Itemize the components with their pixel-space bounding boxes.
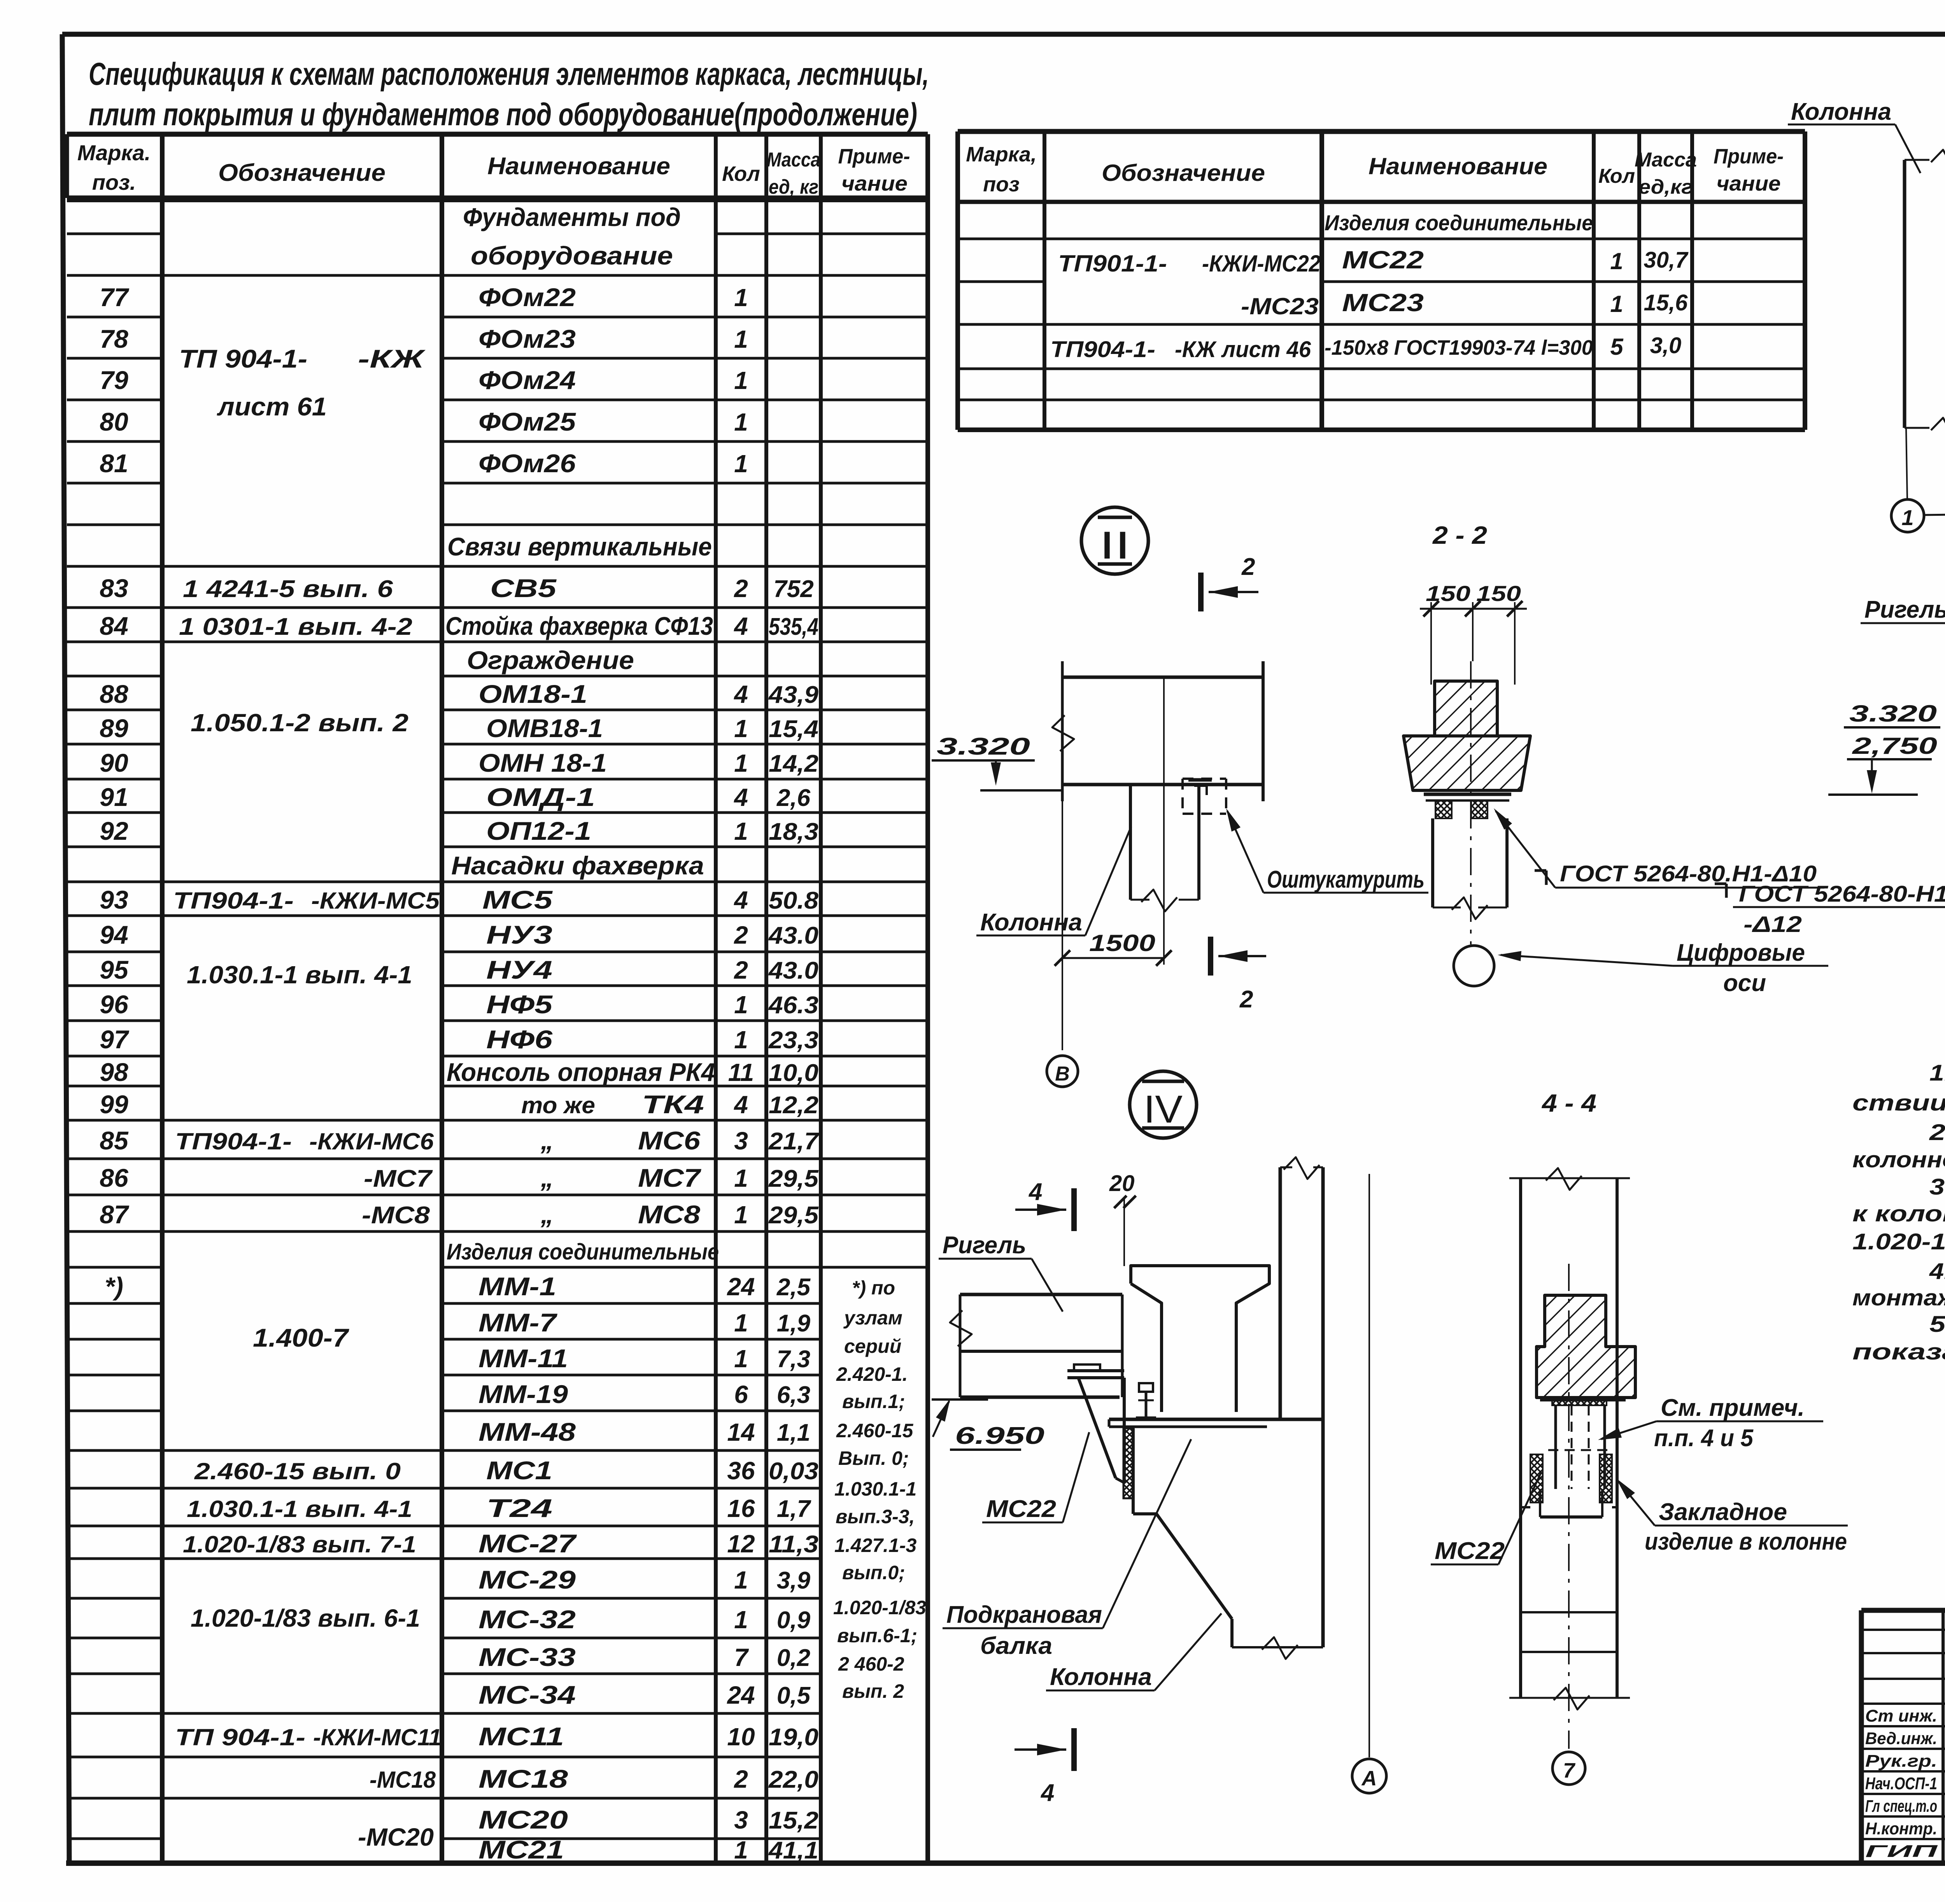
- svg-text:Ригель: Ригель: [943, 1232, 1026, 1259]
- svg-text:3,0: 3,0: [1650, 333, 1682, 358]
- svg-text:вып.3-3,: вып.3-3,: [836, 1506, 915, 1527]
- svg-text:1.020-1/83 вып. 6-1: 1.020-1/83 вып. 6-1: [191, 1604, 420, 1632]
- svg-text:оборудование: оборудование: [471, 241, 673, 270]
- node IV weld strip hatched: [1123, 1428, 1134, 1498]
- svg-text:ТП 904-1-: ТП 904-1-: [175, 1724, 305, 1750]
- svg-text:Фундаменты под: Фундаменты под: [463, 203, 681, 231]
- svg-text:НУ4: НУ4: [486, 955, 552, 984]
- section 4-4 anchor bolts: [1554, 1405, 1557, 1489]
- svg-text:НУ3: НУ3: [486, 920, 552, 949]
- svg-text:88: 88: [100, 680, 128, 708]
- node IV section mark 4 bottom: [1071, 1728, 1077, 1771]
- svg-text:92: 92: [100, 816, 128, 845]
- second spec table frame: [958, 129, 1805, 134]
- node I axis arrow to circle 2: [1925, 514, 1945, 515]
- svg-text:ТП904-1-: ТП904-1-: [175, 1128, 292, 1154]
- node II column axis thin line: [1163, 677, 1165, 965]
- svg-text:6: 6: [734, 1380, 748, 1408]
- svg-text:43.0: 43.0: [768, 922, 818, 949]
- node IV corbel outline: [1132, 1428, 1135, 1514]
- svg-text:3.320: 3.320: [1849, 701, 1937, 727]
- svg-text:Марка,: Марка,: [966, 143, 1037, 166]
- svg-text:11,3: 11,3: [769, 1531, 818, 1558]
- svg-text:1: 1: [734, 1836, 748, 1864]
- svg-text:1,7: 1,7: [777, 1496, 811, 1522]
- svg-text:0,2: 0,2: [777, 1645, 810, 1671]
- svg-text:оси: оси: [1723, 970, 1766, 997]
- node IV crane beam profile: [1131, 1266, 1269, 1412]
- node IV axis line: [1369, 1174, 1370, 1757]
- svg-text:-КЖИ-МС22: -КЖИ-МС22: [1202, 250, 1321, 277]
- svg-text:6,3: 6,3: [777, 1382, 810, 1408]
- node III label GOST 5264-80-N1-D12: [1715, 883, 1726, 885]
- svg-text:1: 1: [734, 1201, 748, 1229]
- svg-text:Стойка фахверка СФ13: Стойка фахверка СФ13: [445, 611, 713, 640]
- svg-text:-МС8: -МС8: [362, 1202, 430, 1229]
- svg-text:МС-29: МС-29: [478, 1565, 576, 1594]
- svg-text:12: 12: [727, 1530, 755, 1558]
- svg-text:ММ-1: ММ-1: [478, 1272, 556, 1301]
- svg-text:24: 24: [727, 1681, 755, 1709]
- section 4-4 crosshatched pads: [1530, 1454, 1543, 1503]
- svg-text:Н.контр.: Н.контр.: [1865, 1819, 1937, 1838]
- section 4-4 column strip: [1519, 1178, 1522, 1698]
- svg-text:1 4241-5 вып. 6: 1 4241-5 вып. 6: [183, 576, 393, 603]
- svg-text:ФОм24: ФОм24: [478, 366, 576, 394]
- svg-text:ТП901-1-: ТП901-1-: [1058, 250, 1167, 277]
- svg-text:90: 90: [100, 748, 128, 777]
- svg-text:4 - 4: 4 - 4: [1541, 1089, 1596, 1117]
- svg-text:Приме-: Приме-: [1714, 145, 1784, 168]
- node II beam outline: [1061, 661, 1064, 801]
- svg-text:1.427.1-3: 1.427.1-3: [834, 1534, 916, 1556]
- node II section mark 2 top: [1198, 573, 1204, 611]
- svg-text:ед, кг: ед, кг: [769, 176, 818, 198]
- svg-text:Закладное: Закладное: [1659, 1499, 1787, 1526]
- svg-text:4: 4: [1028, 1179, 1042, 1205]
- section 4-4 hatched embed body: [1537, 1295, 1635, 1398]
- svg-text:14,2: 14,2: [769, 750, 818, 777]
- svg-text:2,5: 2,5: [776, 1274, 811, 1301]
- svg-text:1: 1: [734, 1606, 748, 1634]
- svg-text:чание: чание: [841, 172, 908, 195]
- svg-text:1: 1: [734, 1309, 748, 1337]
- svg-text:80: 80: [100, 407, 128, 436]
- svg-text:МС-33: МС-33: [478, 1643, 576, 1671]
- svg-text:89: 89: [100, 714, 128, 743]
- svg-text:МС5: МС5: [482, 885, 553, 914]
- svg-text:ТП 904-1-: ТП 904-1-: [179, 344, 307, 373]
- svg-text:78: 78: [100, 324, 128, 353]
- svg-text:Гл спец.т.о: Гл спец.т.о: [1865, 1797, 1937, 1816]
- svg-text:10: 10: [727, 1723, 755, 1751]
- svg-text:-Δ12: -Δ12: [1743, 912, 1802, 937]
- svg-text:II: II: [1099, 524, 1130, 567]
- svg-text:2: 2: [734, 956, 748, 984]
- svg-text:МС22: МС22: [1342, 246, 1424, 274]
- node II axis circle В: [1047, 1056, 1078, 1087]
- svg-text:4: 4: [733, 680, 748, 708]
- svg-text:-МС23: -МС23: [1241, 293, 1319, 319]
- svg-text:ОМ18-1: ОМ18-1: [478, 680, 587, 708]
- svg-text:ФОм26: ФОм26: [478, 449, 576, 478]
- svg-text:150: 150: [1426, 581, 1470, 606]
- svg-text:вып.1;: вып.1;: [842, 1391, 905, 1412]
- svg-text:0,5: 0,5: [777, 1682, 811, 1709]
- svg-text:МС6: МС6: [638, 1126, 701, 1155]
- svg-text:4. Соединительное изделие МС: 4. Соединительное изделие МС22 установит…: [1929, 1259, 1945, 1284]
- svg-text:п.п. 4 и 5: п.п. 4 и 5: [1654, 1425, 1754, 1452]
- svg-text:2.420-1.: 2.420-1.: [836, 1363, 908, 1385]
- svg-text:НФ6: НФ6: [486, 1025, 553, 1054]
- svg-text:43,9: 43,9: [768, 681, 819, 708]
- svg-text:77: 77: [100, 283, 130, 312]
- svg-text:МС20: МС20: [478, 1805, 568, 1834]
- svg-text:2.460-15 вып. 0: 2.460-15 вып. 0: [194, 1458, 401, 1484]
- svg-text:1: 1: [734, 749, 748, 777]
- svg-text:1: 1: [734, 284, 748, 312]
- svg-text:ГОСТ 5264-80-Н1-: ГОСТ 5264-80-Н1-: [1739, 881, 1945, 907]
- node IV beam outline: [960, 1293, 1122, 1296]
- section 4-4 center axis: [1568, 1264, 1570, 1749]
- svg-text:3: 3: [734, 1806, 748, 1834]
- svg-text:-МС20: -МС20: [358, 1823, 434, 1851]
- left table row lines: [67, 233, 162, 235]
- svg-text:-КЖ лист 46: -КЖ лист 46: [1175, 337, 1311, 362]
- svg-text:1,9: 1,9: [777, 1310, 811, 1337]
- svg-text:18,3: 18,3: [769, 818, 818, 845]
- svg-text:ОМД-1: ОМД-1: [486, 783, 595, 811]
- node I column break marks: [1931, 150, 1945, 172]
- svg-text:-150x8 ГОСТ19903-74 l=300: -150x8 ГОСТ19903-74 l=300: [1325, 336, 1593, 359]
- svg-text:1: 1: [1901, 505, 1913, 530]
- svg-text:ОП12-1: ОП12-1: [486, 816, 591, 845]
- svg-text:то же: то же: [521, 1092, 595, 1118]
- svg-text:81: 81: [100, 449, 128, 478]
- svg-text:23,3: 23,3: [768, 1027, 818, 1054]
- svg-text:4: 4: [1040, 1780, 1054, 1806]
- svg-text:96: 96: [100, 990, 129, 1019]
- svg-text:12,2: 12,2: [769, 1092, 818, 1119]
- node II column below beam: [1129, 785, 1132, 900]
- svg-text:Приме-: Приме-: [838, 145, 910, 168]
- page border frame: [62, 32, 1945, 37]
- svg-text:Марка.: Марка.: [77, 140, 151, 165]
- svg-text:15,2: 15,2: [769, 1807, 818, 1834]
- svg-text:50.8: 50.8: [769, 887, 819, 914]
- svg-text:показаны.: показаны.: [1852, 1339, 1945, 1365]
- section 2-2 hatched column head: [1435, 681, 1497, 736]
- svg-text:IV: IV: [1144, 1088, 1183, 1131]
- svg-text:5. Подкрановая балка и рас: 5. Подкрановая балка и распорка условно …: [1929, 1312, 1945, 1337]
- svg-text:1: 1: [734, 1566, 748, 1594]
- svg-text:22,0: 22,0: [768, 1766, 818, 1793]
- svg-text:5: 5: [1610, 334, 1624, 360]
- svg-text:85: 85: [100, 1126, 129, 1155]
- svg-text:535,4: 535,4: [769, 613, 818, 640]
- svg-text:Вып. 0;: Вып. 0;: [838, 1447, 909, 1469]
- svg-text:серий: серий: [844, 1335, 901, 1357]
- svg-text:„: „: [540, 1126, 554, 1155]
- svg-text:1.030.1-1: 1.030.1-1: [834, 1478, 916, 1500]
- svg-text:*) по: *) по: [852, 1277, 895, 1299]
- svg-text:7: 7: [1563, 1759, 1576, 1782]
- svg-text:поз.: поз.: [92, 170, 136, 194]
- svg-text:МС21: МС21: [478, 1835, 564, 1864]
- svg-text:МС-32: МС-32: [478, 1605, 576, 1634]
- svg-text:НФ5: НФ5: [486, 990, 553, 1019]
- svg-text:1: 1: [734, 1345, 748, 1373]
- svg-text:4: 4: [733, 1091, 748, 1119]
- svg-text:узлам: узлам: [843, 1307, 902, 1329]
- node I axis line to circles: [1906, 428, 1907, 500]
- svg-text:ОМН 18-1: ОМН 18-1: [478, 748, 607, 777]
- svg-text:Изделия соединительные: Изделия соединительные: [447, 1239, 719, 1265]
- svg-text:79: 79: [100, 366, 128, 394]
- svg-text:А: А: [1361, 1767, 1377, 1790]
- svg-text:вып. 2: вып. 2: [842, 1680, 904, 1702]
- svg-text:монтаже подкрановой балки и: монтаже подкрановой балки и распорки.: [1852, 1285, 1945, 1310]
- svg-text:4: 4: [733, 886, 748, 914]
- svg-text:2,6: 2,6: [776, 785, 811, 811]
- svg-text:МС11: МС11: [478, 1722, 564, 1751]
- svg-text:19,0: 19,0: [769, 1724, 818, 1751]
- svg-text:3. Соединительные изделия МС: 3. Соединительные изделия МС-27 и МС23 п…: [1929, 1174, 1945, 1200]
- svg-text:МС8: МС8: [638, 1200, 700, 1229]
- svg-text:84: 84: [100, 611, 128, 640]
- svg-text:1: 1: [734, 408, 748, 436]
- svg-text:16: 16: [727, 1494, 755, 1522]
- svg-text:1: 1: [1610, 291, 1623, 317]
- svg-text:1: 1: [734, 325, 748, 353]
- svg-text:МС23: МС23: [1342, 289, 1424, 317]
- svg-text:1: 1: [734, 715, 748, 743]
- svg-text:15,4: 15,4: [769, 716, 818, 743]
- svg-text:1: 1: [734, 450, 748, 478]
- svg-text:Ст инж.: Ст инж.: [1865, 1706, 1937, 1725]
- svg-text:Колонна: Колонна: [1791, 98, 1891, 125]
- svg-text:-КЖИ-МС11: -КЖИ-МС11: [313, 1724, 442, 1750]
- svg-text:Т24: Т24: [486, 1494, 552, 1522]
- svg-text:плит покрытия и фундаментов: плит покрытия и фундаментов под оборудов…: [89, 97, 917, 132]
- svg-text:к колоннам в соответствии с: к колоннам в соответствии с узлом 27-3 п…: [1852, 1201, 1945, 1226]
- svg-text:3: 3: [734, 1127, 748, 1155]
- svg-text:10,0: 10,0: [769, 1060, 818, 1086]
- svg-text:Связи вертикальные: Связи вертикальные: [447, 532, 712, 561]
- section 2-2 center axis: [1470, 661, 1472, 944]
- svg-text:2: 2: [734, 575, 748, 603]
- section 4-4 column joint lines: [1521, 1506, 1530, 1508]
- svg-text:-КЖИ-МС5: -КЖИ-МС5: [311, 888, 440, 914]
- svg-text:Обозначение: Обозначение: [218, 159, 385, 186]
- left spec table frame: [67, 196, 928, 201]
- svg-text:поз: поз: [983, 173, 1020, 196]
- svg-text:150: 150: [1476, 581, 1521, 606]
- svg-text:1.020-1/83: 1.020-1/83: [833, 1597, 926, 1618]
- svg-text:98: 98: [100, 1058, 128, 1086]
- svg-text:МС18: МС18: [478, 1764, 568, 1793]
- svg-text:1: 1: [1610, 248, 1623, 274]
- svg-text:-КЖИ-МС6: -КЖИ-МС6: [309, 1128, 434, 1154]
- svg-text:Оштукатурить: Оштукатурить: [1267, 866, 1425, 893]
- svg-text:4: 4: [733, 612, 748, 640]
- node IV anchor bolt: [1139, 1383, 1153, 1392]
- svg-text:2: 2: [1239, 986, 1253, 1013]
- node IV column outline: [1321, 1167, 1325, 1647]
- svg-text:1.030.1-1 вып. 4-1: 1.030.1-1 вып. 4-1: [187, 961, 412, 989]
- svg-text:-МС18: -МС18: [370, 1767, 436, 1793]
- svg-text:Ригель: Ригель: [1864, 596, 1945, 623]
- svg-text:лист 61: лист 61: [217, 392, 327, 421]
- node IV support plate under crane beam: [1109, 1418, 1323, 1421]
- svg-text:-МС7: -МС7: [364, 1165, 433, 1192]
- svg-text:Наименование: Наименование: [487, 153, 670, 180]
- svg-text:41,1: 41,1: [768, 1837, 818, 1864]
- svg-text:1: 1: [734, 366, 748, 394]
- svg-text:ММ-48: ММ-48: [478, 1417, 576, 1446]
- stamp signature area rows: [1861, 1629, 1945, 1631]
- svg-text:1,1: 1,1: [777, 1419, 810, 1446]
- svg-text:чание: чание: [1717, 172, 1781, 195]
- svg-text:ММ-11: ММ-11: [478, 1344, 568, 1373]
- svg-text:6.950: 6.950: [955, 1422, 1044, 1449]
- svg-text:Изделия соединительные: Изделия соединительные: [1325, 210, 1593, 235]
- svg-text:ТК4: ТК4: [642, 1090, 704, 1119]
- svg-text:87: 87: [100, 1200, 130, 1229]
- node IV MC22 bracket: [1074, 1365, 1100, 1371]
- svg-text:ОМВ18-1: ОМВ18-1: [486, 714, 603, 743]
- svg-text:вып.6-1;: вып.6-1;: [837, 1625, 917, 1647]
- svg-text:1 0301-1 вып. 4-2: 1 0301-1 вып. 4-2: [179, 613, 412, 640]
- svg-text:ТП904-1-: ТП904-1-: [1050, 337, 1155, 362]
- svg-text:ММ-19: ММ-19: [478, 1380, 568, 1408]
- node I column outline: [1903, 160, 1906, 428]
- svg-text:Нач.ОСП-1: Нач.ОСП-1: [1865, 1774, 1937, 1793]
- svg-text:2.460-15: 2.460-15: [836, 1420, 914, 1442]
- stamp outer frame: [1859, 1610, 1864, 1863]
- section 2-2 column below: [1431, 818, 1434, 907]
- svg-text:Рук.гр.: Рук.гр.: [1865, 1752, 1937, 1771]
- svg-text:7,3: 7,3: [777, 1346, 810, 1373]
- svg-text:93: 93: [100, 885, 128, 914]
- svg-text:94: 94: [100, 920, 128, 949]
- svg-text:колонной выполнять цементным: колонной выполнять цементным раствором м…: [1852, 1147, 1945, 1172]
- svg-text:ТП904-1-: ТП904-1-: [173, 888, 294, 914]
- svg-text:балка: балка: [980, 1633, 1052, 1659]
- svg-text:„: „: [540, 1163, 554, 1192]
- svg-text:2,750: 2,750: [1852, 733, 1937, 759]
- svg-text:1. Сварочные работы следует: 1. Сварочные работы следует выполнять в …: [1929, 1060, 1945, 1086]
- svg-text:Кол: Кол: [1598, 165, 1635, 187]
- svg-text:В: В: [1055, 1063, 1070, 1085]
- svg-text:2: 2: [1241, 554, 1255, 580]
- svg-text:1: 1: [734, 1026, 748, 1054]
- svg-text:1.020-1/83 вып. 7-1: 1.020-1/83 вып. 7-1: [183, 1531, 416, 1557]
- svg-text:СВ5: СВ5: [490, 574, 557, 603]
- svg-text:Наименование: Наименование: [1369, 153, 1547, 179]
- svg-text:Консоль опорная РК4: Консоль опорная РК4: [447, 1058, 715, 1086]
- svg-text:ФОм25: ФОм25: [478, 407, 576, 436]
- svg-text:„: „: [540, 1200, 554, 1229]
- svg-text:1.030.1-1 вып. 4-1: 1.030.1-1 вып. 4-1: [187, 1496, 412, 1522]
- svg-text:МС-27: МС-27: [478, 1529, 577, 1558]
- svg-text:изделие в колонне: изделие в колонне: [1645, 1528, 1847, 1555]
- svg-text:2 Замоноличивание зазора: 2 Замоноличивание зазора между торцом ри…: [1929, 1120, 1945, 1145]
- svg-text:МС1: МС1: [486, 1456, 552, 1485]
- svg-text:1.400-7: 1.400-7: [253, 1323, 350, 1352]
- node II connection dashed bracket: [1183, 778, 1226, 780]
- svg-text:Вед.инж.: Вед.инж.: [1865, 1729, 1937, 1748]
- svg-text:ФОм23: ФОм23: [478, 324, 576, 353]
- svg-text:43.0: 43.0: [768, 957, 818, 984]
- section 4-4 axis circle 7: [1552, 1752, 1585, 1785]
- svg-text:0,9: 0,9: [777, 1607, 811, 1634]
- svg-text:Масса: Масса: [767, 149, 820, 171]
- svg-text:*): *): [105, 1272, 123, 1301]
- svg-text:-КЖ: -КЖ: [358, 344, 426, 373]
- node IV section mark 4 top: [1071, 1188, 1077, 1231]
- section 2-2 bearing plate: [1424, 793, 1511, 796]
- section 2-2 label GOST 5264-80.N1-D10: [1535, 869, 1546, 872]
- node I axis circle 1: [1891, 499, 1924, 532]
- svg-text:Колонна: Колонна: [1050, 1664, 1152, 1690]
- svg-text:Ограждение: Ограждение: [467, 646, 634, 674]
- node II section mark 2 bottom: [1208, 937, 1213, 976]
- svg-text:ед,кг: ед,кг: [1638, 176, 1693, 198]
- svg-text:МС22: МС22: [1435, 1538, 1505, 1564]
- section 4-4 bolts bottom plate: [1540, 1515, 1602, 1519]
- svg-text:14: 14: [727, 1418, 755, 1446]
- svg-text:752: 752: [773, 576, 813, 603]
- svg-text:86: 86: [100, 1163, 129, 1192]
- svg-text:1500: 1500: [1089, 930, 1155, 956]
- svg-text:11: 11: [728, 1058, 754, 1086]
- section 2-2 axis circle: [1454, 946, 1494, 986]
- svg-text:29,5: 29,5: [768, 1202, 819, 1229]
- svg-text:95: 95: [100, 955, 129, 984]
- svg-text:1: 1: [734, 991, 748, 1019]
- svg-text:29,5: 29,5: [768, 1165, 819, 1192]
- svg-text:21,7: 21,7: [768, 1128, 820, 1155]
- svg-text:2 - 2: 2 - 2: [1432, 521, 1487, 549]
- svg-text:99: 99: [100, 1090, 128, 1119]
- svg-text:Спецификация к схемам располож: Спецификация к схемам расположения элеме…: [89, 56, 929, 92]
- svg-text:3,9: 3,9: [777, 1567, 811, 1594]
- svg-text:Подкрановая: Подкрановая: [946, 1601, 1102, 1628]
- node II mark circle: [1081, 507, 1148, 574]
- svg-text:Кол: Кол: [722, 162, 760, 186]
- svg-text:2: 2: [734, 921, 748, 949]
- svg-text:Масса: Масса: [1635, 149, 1697, 171]
- svg-text:1: 1: [734, 1164, 748, 1192]
- svg-text:Цифровые: Цифровые: [1677, 939, 1805, 966]
- svg-text:1: 1: [734, 817, 748, 845]
- svg-text:24: 24: [727, 1273, 755, 1301]
- node IV axis circle А: [1352, 1759, 1386, 1793]
- svg-text:46.3: 46.3: [768, 992, 818, 1019]
- svg-text:Насадки фахверка: Насадки фахверка: [451, 851, 704, 880]
- svg-text:83: 83: [100, 574, 128, 603]
- second table row lines: [958, 238, 1044, 240]
- svg-text:См. примеч.: См. примеч.: [1661, 1394, 1805, 1421]
- svg-text:2: 2: [734, 1765, 748, 1793]
- svg-text:0,03: 0,03: [769, 1458, 818, 1485]
- svg-text:МС-34: МС-34: [478, 1680, 576, 1709]
- svg-text:3.320: 3.320: [937, 733, 1030, 760]
- svg-text:15,6: 15,6: [1644, 290, 1688, 315]
- svg-text:30,7: 30,7: [1644, 247, 1689, 273]
- svg-text:7: 7: [734, 1643, 749, 1671]
